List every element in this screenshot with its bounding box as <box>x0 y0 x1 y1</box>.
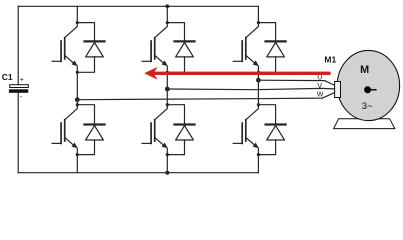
transistor Q6 (IGBT, bottom of leg 3) <box>233 105 259 155</box>
wire: left DC bus vertical (top section) <box>17 6 19 85</box>
node: leg 2 emitter junction (bottom half) <box>166 153 169 156</box>
svg-text:M: M <box>360 64 369 76</box>
svg-text:3~: 3~ <box>362 101 373 112</box>
wire: phase V from leg 2 to motor <box>167 88 336 89</box>
svg-text:U: U <box>317 74 322 81</box>
svg-text:+: + <box>20 77 24 84</box>
node: leg 2 top junction <box>166 21 169 24</box>
wire: leg 1 midpoint vertical <box>76 72 78 104</box>
transistor Q4 (IGBT, bottom of leg 2) <box>142 105 168 155</box>
motor M1 terminal box <box>335 82 341 98</box>
node: phase output V (leg 2) <box>165 87 170 92</box>
node: leg 3 emitter junction (top half) <box>257 71 260 74</box>
diode D5 (freewheeling, top of leg 3) <box>258 23 285 73</box>
diode D1 (freewheeling, top of leg 1) <box>77 23 104 73</box>
node: phase output W (leg 1) <box>75 97 80 102</box>
wire: left DC bus vertical (bottom section) <box>17 93 19 173</box>
wire: DC- bottom rail <box>18 172 258 174</box>
svg-text:M1: M1 <box>324 55 336 65</box>
node: leg 3 bottom junction <box>257 103 260 106</box>
wire: leg 3 midpoint vertical <box>257 72 259 104</box>
wire: DC+ top rail <box>18 5 258 7</box>
diode D4 (freewheeling, bottom of leg 2) <box>167 105 194 155</box>
diode D2 (freewheeling, bottom of leg 1) <box>77 105 104 155</box>
motor M1 stand (base trapezoid) <box>334 119 395 129</box>
node: leg 2 bottom junction <box>166 103 169 106</box>
transistor Q1 (IGBT, top of leg 1) <box>52 23 78 73</box>
node: leg 2 emitter junction (top half) <box>166 71 169 74</box>
node: leg 1 top junction <box>76 21 79 24</box>
svg-text:C1: C1 <box>2 72 13 82</box>
wire: leg 2 bottom vertical <box>166 155 168 173</box>
node: leg 2 bottom rail junction <box>165 171 169 175</box>
node: phase output U (leg 3) <box>256 78 261 83</box>
svg-text:-: - <box>20 94 23 101</box>
motor M1 body <box>337 50 399 120</box>
diode D3 (freewheeling, top of leg 2) <box>167 23 194 73</box>
node: leg 3 top junction <box>257 21 260 24</box>
node: leg 1 emitter junction (top half) <box>76 71 79 74</box>
wire: leg 2 top vertical <box>166 6 168 22</box>
annotation: red current direction arrow <box>144 67 330 80</box>
transistor Q3 (IGBT, top of leg 2) <box>142 23 168 73</box>
svg-text:V: V <box>317 83 322 90</box>
motor M1 shaft dot <box>364 86 377 93</box>
node: leg 1 bottom junction <box>76 103 79 106</box>
wire: leg 2 midpoint vertical <box>166 72 168 104</box>
transistor Q5 (IGBT, top of leg 3) <box>233 23 259 73</box>
wire: leg 3 top vertical <box>257 6 259 22</box>
svg-text:W: W <box>317 91 324 98</box>
wire: phase W from leg 1 to motor <box>77 92 336 100</box>
transistor Q2 (IGBT, bottom of leg 1) <box>52 105 78 155</box>
node: leg 1 emitter junction (bottom half) <box>76 153 79 156</box>
capacitor C1 (DC link electrolytic) <box>9 85 28 93</box>
node: leg 3 emitter junction (bottom half) <box>257 153 260 156</box>
wire: leg 1 top vertical <box>76 6 78 22</box>
wire: leg 3 bottom vertical <box>257 155 259 173</box>
wire: phase U from leg 3 to motor <box>258 80 336 86</box>
node: leg 2 top rail junction <box>165 4 169 8</box>
diode D6 (freewheeling, bottom of leg 3) <box>258 105 285 155</box>
wire: leg 1 bottom vertical <box>76 155 78 173</box>
